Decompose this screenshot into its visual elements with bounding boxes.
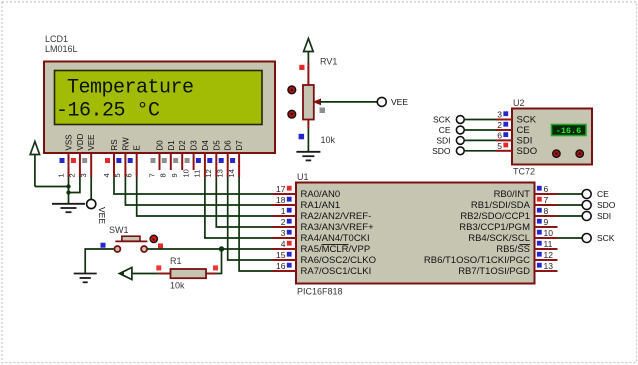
svg-text:13: 13 <box>544 261 554 271</box>
svg-text:SW1: SW1 <box>109 225 129 235</box>
svg-text:D4: D4 <box>201 140 210 151</box>
svg-text:D1: D1 <box>167 140 176 151</box>
svg-text:12: 12 <box>204 169 213 177</box>
svg-text:VDD: VDD <box>76 133 85 150</box>
ground (LCD) <box>52 204 85 212</box>
wire U1 RB0 to CE terminal <box>558 193 583 195</box>
svg-text:RB1/SDI/SDA: RB1/SDI/SDA <box>471 200 531 211</box>
switch SW1 actuator line <box>115 240 147 242</box>
LCD screen <box>55 71 263 125</box>
svg-text:6: 6 <box>125 173 134 177</box>
terminal SDI (right) <box>582 212 591 221</box>
svg-text:VEE: VEE <box>391 97 408 107</box>
svg-text:8: 8 <box>544 206 549 216</box>
switch SW1 right terminal <box>141 246 147 252</box>
sensor U2 body TC72 <box>512 109 592 165</box>
wire LCD pin3 to VEE terminal <box>90 177 92 199</box>
U2 down button <box>553 150 560 157</box>
svg-text:2: 2 <box>68 173 77 177</box>
svg-text:E: E <box>133 145 142 150</box>
svg-text:SDO: SDO <box>597 200 616 210</box>
U1 RA5 MCLR overline <box>322 244 349 246</box>
wire ground to SW1 left <box>85 249 114 273</box>
junction node VSS/power <box>66 184 70 188</box>
wire U1 RB1 to SDO terminal <box>558 204 583 206</box>
svg-text:8: 8 <box>159 173 168 177</box>
terminal SDO (U2 side) <box>456 147 464 155</box>
svg-text:RS: RS <box>110 139 119 150</box>
svg-text:14: 14 <box>227 169 236 177</box>
ground (RV1) <box>296 152 320 161</box>
wire LCD D5 to U1 RA3 <box>216 177 272 227</box>
svg-text:RA0/AN0: RA0/AN0 <box>301 189 341 200</box>
junction node VDD <box>66 190 70 194</box>
svg-text:7: 7 <box>147 173 156 177</box>
svg-text:1: 1 <box>281 206 286 216</box>
RV1 state square top <box>299 65 304 70</box>
svg-text:VSS: VSS <box>65 134 74 150</box>
svg-text:SCK: SCK <box>433 115 451 125</box>
svg-text:D7: D7 <box>235 140 244 151</box>
resistor R1 body <box>171 269 207 278</box>
svg-text:-16.6: -16.6 <box>556 126 582 136</box>
RV1 wiper arrowhead <box>313 99 322 106</box>
svg-text:11: 11 <box>544 239 553 249</box>
svg-text:RA4/AN4/T0CKI: RA4/AN4/T0CKI <box>301 233 370 244</box>
LCD pin stubs <box>69 153 240 177</box>
U1 right pin numbers <box>544 184 554 271</box>
U1 right pin names <box>424 189 531 277</box>
svg-text:5: 5 <box>113 173 122 177</box>
wire LCD D7 to U1 RA7 <box>239 177 272 271</box>
svg-text:TC72: TC72 <box>513 167 535 177</box>
svg-text:12: 12 <box>544 250 554 260</box>
svg-text:LCD1: LCD1 <box>45 34 68 44</box>
svg-text:4: 4 <box>102 173 111 177</box>
svg-text:CE: CE <box>597 189 609 199</box>
RV1 bottom lead <box>307 120 309 129</box>
svg-text:SDI: SDI <box>436 135 450 145</box>
terminal VEE (LCD) <box>87 199 96 208</box>
RV1 wiper state square gray <box>320 108 326 114</box>
svg-text:D5: D5 <box>212 140 221 151</box>
R1 state square right <box>213 265 218 270</box>
wire LCD pin1 VSS down to ground <box>68 177 70 204</box>
svg-text:CE: CE <box>517 125 530 136</box>
svg-text:2: 2 <box>497 120 502 130</box>
terminal SCK (right) <box>582 234 591 243</box>
svg-text:R1: R1 <box>170 256 182 266</box>
svg-text:LM016L: LM016L <box>45 44 78 54</box>
wire U1 RB4 to SCK terminal <box>558 237 583 239</box>
svg-text:RB5/SS: RB5/SS <box>496 244 530 255</box>
svg-text:U2: U2 <box>513 98 525 108</box>
svg-text:3: 3 <box>281 228 286 238</box>
svg-text:CE: CE <box>439 125 451 135</box>
svg-text:RA7/OSC1/CLKI: RA7/OSC1/CLKI <box>301 266 372 277</box>
wire LCD D4 to U1 RA4 <box>205 177 273 238</box>
wire U2 SDI terminal <box>465 139 496 141</box>
wire LCD RW to U1 RA1 <box>125 177 272 205</box>
switch SW1 red button <box>150 235 157 242</box>
svg-text:RA2/AN2/VREF-: RA2/AN2/VREF- <box>301 211 372 222</box>
svg-text:VEE: VEE <box>87 134 96 150</box>
terminal SDI (U2 side) <box>456 137 464 145</box>
U1 left pin names <box>301 189 377 277</box>
svg-text:Temperature: Temperature <box>67 77 194 100</box>
svg-text:7: 7 <box>544 195 549 205</box>
wire U2 CE terminal <box>465 129 496 131</box>
SW1 state square blue <box>101 243 106 248</box>
U2 up button <box>576 150 583 157</box>
terminal CE (U2 side) <box>456 126 464 134</box>
RV1 down button <box>288 110 296 118</box>
svg-text:RB2/SDO/CCP1: RB2/SDO/CCP1 <box>460 211 530 222</box>
svg-text:D6: D6 <box>224 140 233 151</box>
svg-text:4: 4 <box>281 239 286 249</box>
svg-text:10k: 10k <box>321 135 336 145</box>
svg-text:10: 10 <box>181 169 190 177</box>
wire U2 SDO terminal <box>465 150 496 152</box>
svg-text:RB0/INT: RB0/INT <box>494 189 531 200</box>
svg-text:16: 16 <box>276 261 286 271</box>
switch SW1 left terminal <box>114 246 120 252</box>
wire power arrow stem <box>34 155 36 187</box>
U2 pin state squares <box>503 111 508 147</box>
svg-text:11: 11 <box>193 170 202 178</box>
SW1 state square red <box>158 244 163 249</box>
svg-text:9: 9 <box>170 173 179 177</box>
svg-text:SCK: SCK <box>517 115 537 126</box>
svg-text:13: 13 <box>216 169 225 177</box>
LCD pin state squares <box>60 158 236 163</box>
svg-text:U1: U1 <box>297 172 309 182</box>
svg-text:SDO: SDO <box>517 146 538 157</box>
svg-text:3: 3 <box>79 173 88 177</box>
wire LCD D6 to U1 RA6 <box>228 177 273 260</box>
terminal SCK (U2 side) <box>456 116 464 124</box>
svg-text:VEE: VEE <box>97 207 107 224</box>
svg-text:PIC16F818: PIC16F818 <box>297 287 343 297</box>
svg-text:RA5/MCLR/VPP: RA5/MCLR/VPP <box>301 244 371 255</box>
svg-text:5: 5 <box>497 141 502 151</box>
svg-text:10: 10 <box>544 228 554 238</box>
svg-text:17: 17 <box>276 184 286 194</box>
wire R1 left to tail arrow <box>132 273 159 275</box>
resistor R1 left lead <box>159 273 171 275</box>
ground (SW1) <box>74 274 97 283</box>
junction node A (RA5 net) <box>219 246 224 251</box>
svg-text:RV1: RV1 <box>320 57 337 67</box>
wire LCD pin2 VDD down <box>69 177 80 193</box>
svg-text:RB3/CCP1/PGM: RB3/CCP1/PGM <box>459 222 530 233</box>
wire RV1 arrow stem <box>307 52 309 64</box>
svg-text:D0: D0 <box>156 140 165 151</box>
wire RV1 wiper to VEE <box>320 101 377 103</box>
wire node A to U1 RA5 <box>222 248 273 250</box>
U1 right pin state squares <box>537 186 542 268</box>
svg-text:RB6/T1OSO/T1CKI/PGC: RB6/T1OSO/T1CKI/PGC <box>424 255 530 266</box>
svg-text:RW: RW <box>121 137 130 151</box>
svg-text:RB7/T1OSI/PGD: RB7/T1OSI/PGD <box>458 266 530 277</box>
RV1 top lead <box>307 63 309 85</box>
svg-text:SDI: SDI <box>517 136 533 147</box>
U2 temperature display <box>552 125 587 136</box>
terminal CE (right) <box>582 190 591 199</box>
LCD pin numbers rotated <box>56 169 236 177</box>
svg-text:6: 6 <box>497 130 502 140</box>
U1 right pin stubs <box>535 194 558 271</box>
potentiometer RV1 body <box>303 85 314 120</box>
svg-text:-16.25 °C: -16.25 °C <box>56 100 160 123</box>
op-amp U1 body PIC16F818 <box>296 183 535 284</box>
resistor R1 right lead <box>206 273 217 275</box>
svg-text:15: 15 <box>276 250 286 260</box>
svg-text:D2: D2 <box>178 140 187 151</box>
wire LCD E to U1 RA2 <box>137 177 273 216</box>
wire power to node <box>35 186 69 188</box>
svg-text:SDO: SDO <box>432 146 451 156</box>
terminal SDO (right) <box>582 201 591 210</box>
LCD pin name labels rotated <box>65 133 245 150</box>
svg-text:9: 9 <box>544 217 549 227</box>
power arrow (RV1) <box>304 39 314 52</box>
power arrow +V (left) <box>30 142 39 155</box>
svg-text:1: 1 <box>56 173 65 177</box>
LCD LCD1 body <box>44 62 275 154</box>
wire node A down to R1 <box>217 249 222 274</box>
svg-text:RA1/AN1: RA1/AN1 <box>301 200 341 211</box>
wire U1 RB2 to SDI terminal <box>558 215 583 217</box>
terminal VEE (RV1) <box>377 97 386 106</box>
wire SW1 right to node A <box>147 248 221 250</box>
U2 pin numbers <box>497 110 502 151</box>
svg-text:10k: 10k <box>170 281 185 291</box>
svg-text:RA6/OSC2/CLKO: RA6/OSC2/CLKO <box>301 255 377 266</box>
U2 pin stubs <box>496 120 512 151</box>
svg-text:2: 2 <box>281 217 286 227</box>
svg-text:6: 6 <box>544 184 549 194</box>
U1 left pin stubs <box>273 194 297 271</box>
U1 left pin state squares <box>287 186 292 268</box>
svg-text:D3: D3 <box>190 140 199 151</box>
svg-text:RA3/AN3/VREF+: RA3/AN3/VREF+ <box>301 222 375 233</box>
U2 pin names <box>517 115 538 157</box>
wire LCD RS to U1 RA0 <box>114 177 273 194</box>
svg-text:18: 18 <box>276 195 286 205</box>
svg-text:SDI: SDI <box>597 211 611 221</box>
U1 left pin numbers <box>276 184 286 271</box>
RV1 up button <box>288 86 296 94</box>
svg-text:RB4/SCK/SCL: RB4/SCK/SCL <box>468 233 530 244</box>
svg-text:3: 3 <box>497 110 502 120</box>
R1 state square left <box>156 265 161 270</box>
svg-text:SCK: SCK <box>597 233 615 243</box>
power tail arrow (left pointing) <box>119 268 131 280</box>
wire U2 SCK terminal <box>465 119 496 121</box>
U1 RB5 SS overline <box>519 244 530 246</box>
RV1 state square bottom <box>299 134 305 140</box>
wire RV1 to ground <box>307 128 309 152</box>
switch SW1 bar <box>122 236 140 241</box>
